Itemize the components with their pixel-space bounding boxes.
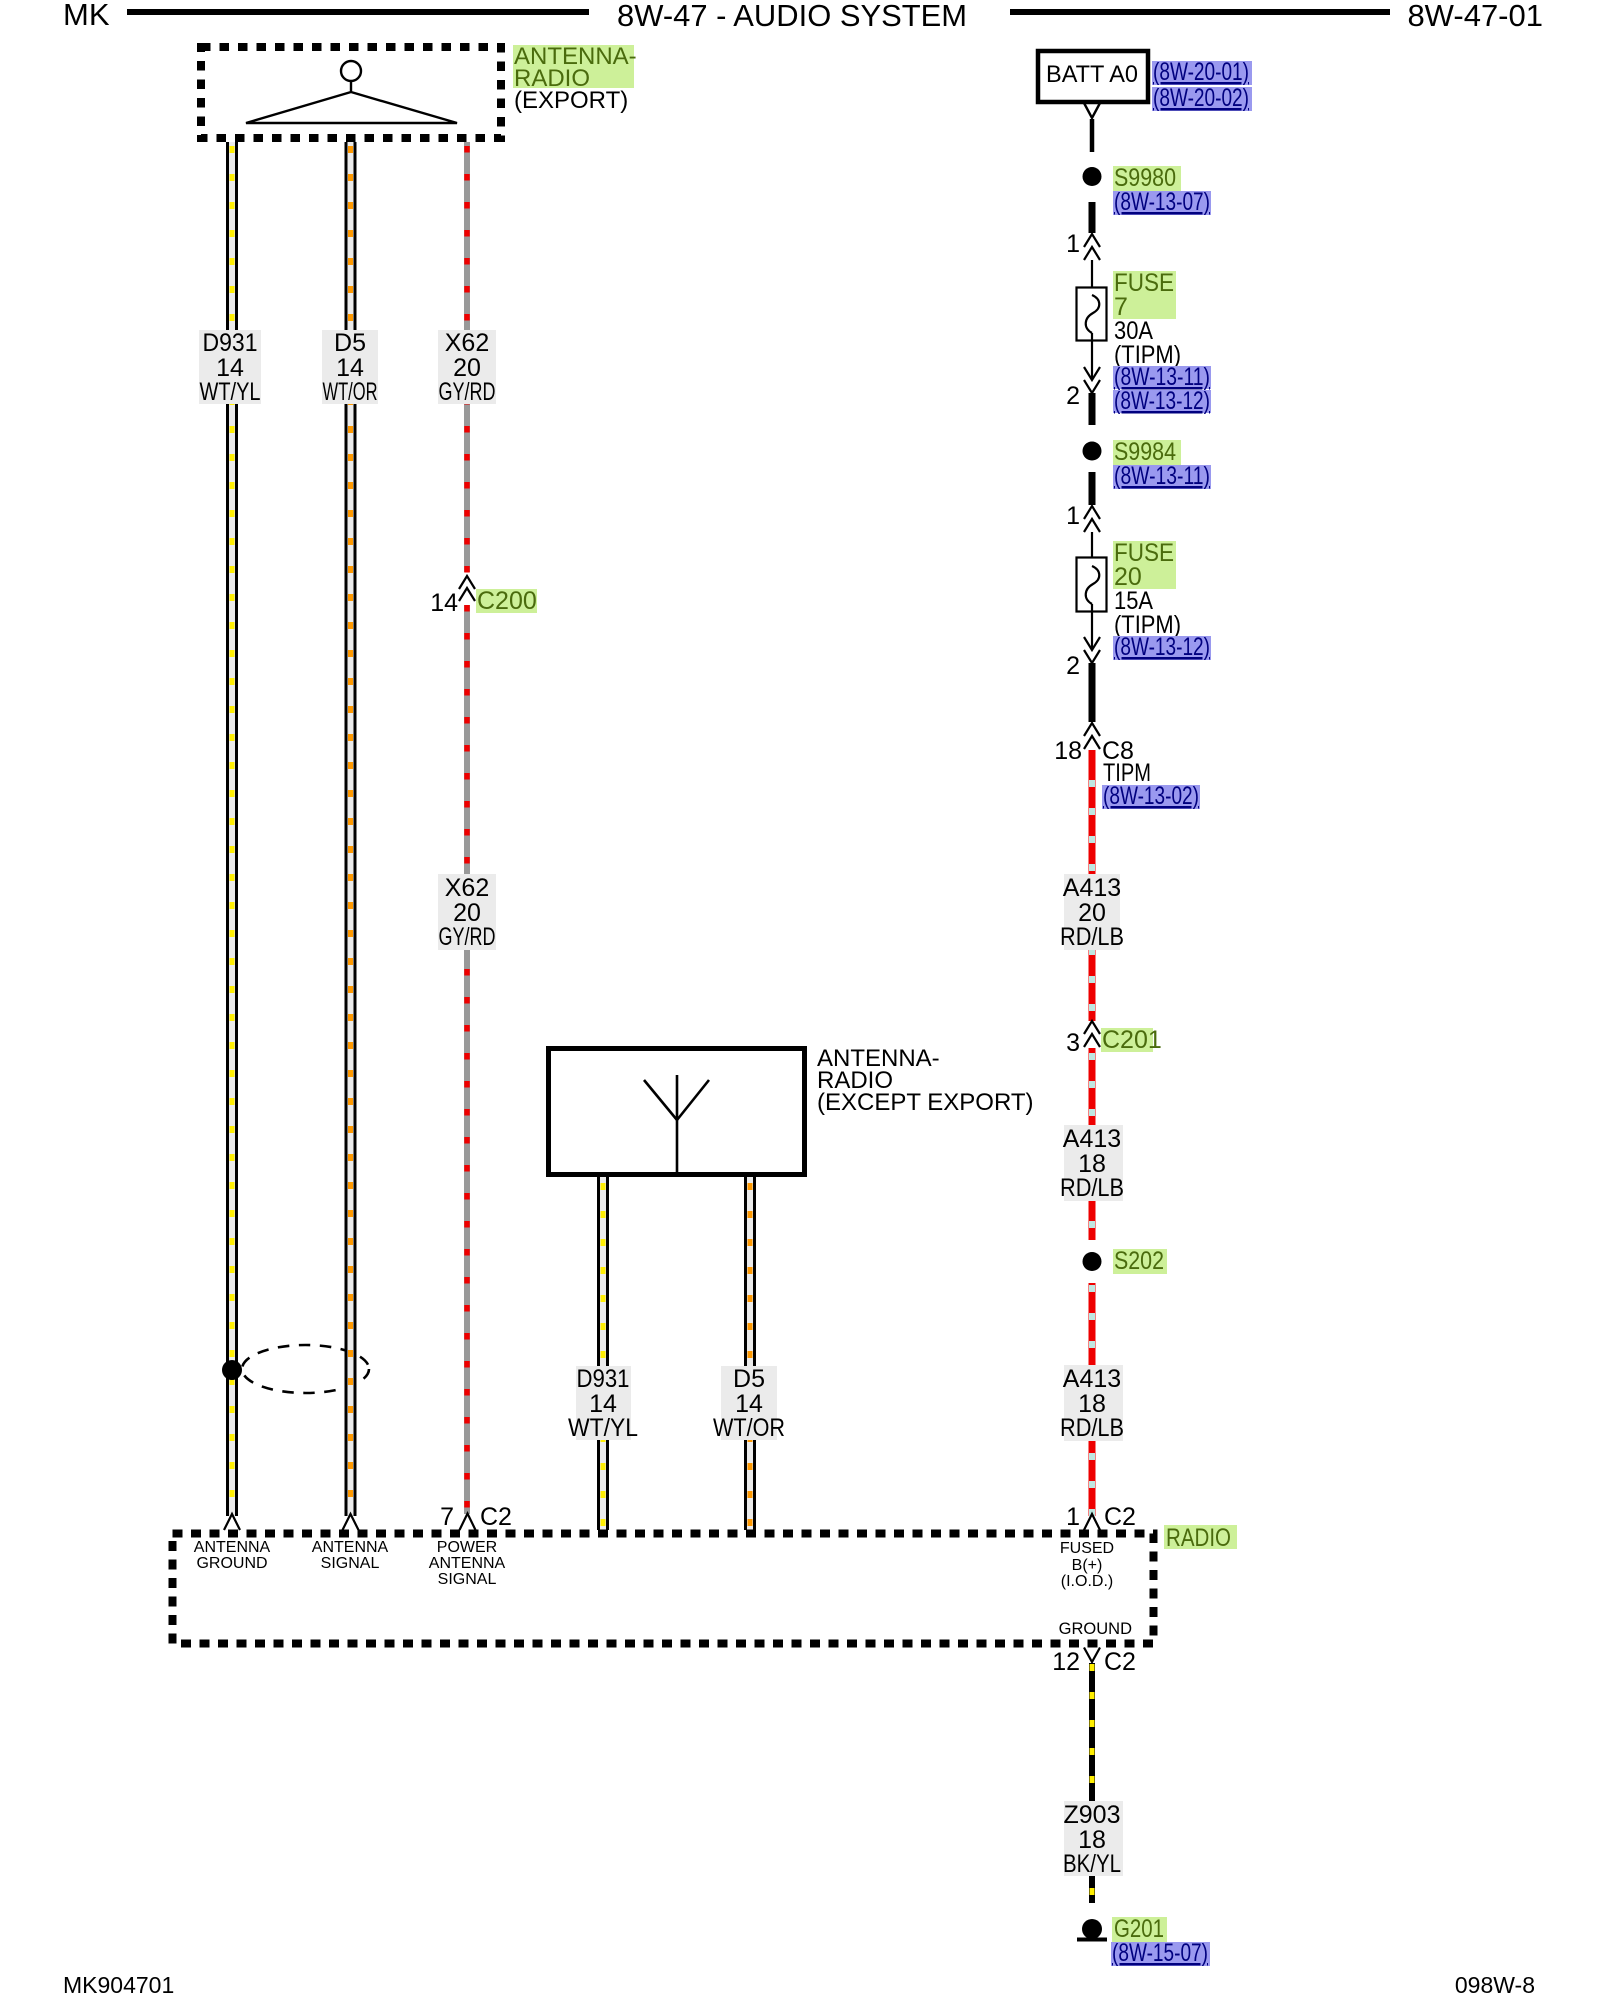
svg-text:WT/YL: WT/YL — [200, 378, 261, 406]
svg-text:RADIO: RADIO — [1166, 1524, 1231, 1552]
battery feed box BATT A0 — [1038, 51, 1148, 102]
splice S202 — [1083, 1252, 1102, 1271]
svg-text:S202: S202 — [1114, 1247, 1164, 1275]
wire D5 WT/OR (antenna signal, export) — [345, 142, 357, 1516]
ground symbol G201 — [1082, 1919, 1102, 1939]
reference (8W-13-11) — [1113, 366, 1211, 389]
svg-text:ANTENNA: ANTENNA — [194, 1539, 271, 1556]
reference (8W-13-12) — [1113, 390, 1211, 413]
label D931 14 WT/YL (row 2) — [568, 1365, 638, 1442]
connector V below battery box — [1084, 103, 1100, 118]
reference (8W-13-12) — [1113, 636, 1211, 660]
svg-text:(8W-13-07): (8W-13-07) — [1114, 188, 1210, 216]
label X62 20 GY/RD (row 1) — [438, 329, 496, 406]
svg-text:1: 1 — [1066, 230, 1080, 258]
svg-text:ANTENNA: ANTENNA — [429, 1555, 506, 1572]
svg-text:MK: MK — [63, 0, 110, 32]
svg-text:12: 12 — [1052, 1648, 1080, 1676]
svg-text:14: 14 — [430, 589, 458, 617]
svg-text:D5: D5 — [733, 1365, 765, 1393]
svg-text:8W-47 - AUDIO SYSTEM: 8W-47 - AUDIO SYSTEM — [617, 0, 967, 33]
reference (8W-13-02) — [1102, 785, 1200, 809]
wire thick segment to TIPM connector — [1089, 663, 1096, 722]
svg-text:8W-47-01: 8W-47-01 — [1407, 0, 1543, 33]
svg-text:(8W-20-02): (8W-20-02) — [1153, 84, 1249, 112]
svg-text:BK/YL: BK/YL — [1063, 1850, 1121, 1878]
label D931 14 WT/YL (row 1) — [199, 329, 261, 406]
antenna trident symbol — [644, 1075, 709, 1175]
svg-text:(EXPORT): (EXPORT) — [514, 87, 628, 114]
fuse FUSE 7 30A (TIPM) — [1077, 288, 1107, 341]
svg-text:098W-8: 098W-8 — [1455, 1972, 1535, 1998]
splice S9984 — [1083, 442, 1102, 461]
header rule left — [127, 9, 589, 15]
svg-text:C2: C2 — [1104, 1648, 1136, 1676]
svg-text:POWER: POWER — [437, 1539, 497, 1556]
svg-text:A413: A413 — [1063, 1365, 1121, 1393]
svg-text:(I.O.D.): (I.O.D.) — [1061, 1573, 1113, 1590]
svg-text:(EXCEPT EXPORT): (EXCEPT EXPORT) — [817, 1089, 1034, 1116]
svg-text:MK904701: MK904701 — [63, 1972, 174, 1998]
SECTION: footer — [63, 1972, 1535, 1998]
twisted-pair loop (dashed ellipse) — [242, 1345, 369, 1393]
radio dashed enclosure — [173, 1534, 1154, 1644]
antenna ANTENNA-RADIO (EXCEPT EXPORT) box — [549, 1049, 805, 1175]
reference (8W-20-02) — [1152, 87, 1252, 111]
svg-text:2: 2 — [1066, 382, 1080, 410]
svg-text:RD/LB: RD/LB — [1060, 1174, 1124, 1202]
SECTION: middle antenna — [549, 1045, 1034, 1530]
svg-text:D931: D931 — [203, 329, 258, 357]
svg-text:RD/LB: RD/LB — [1060, 1414, 1124, 1442]
svg-text:SIGNAL: SIGNAL — [438, 1571, 497, 1588]
svg-text:C2: C2 — [1104, 1503, 1136, 1531]
wire thick segment below fuse 7 — [1089, 393, 1096, 425]
connector C8 pin 18 (double chevron up) — [1084, 723, 1100, 749]
svg-text:X62: X62 — [445, 329, 489, 357]
wire thick segment below S9984 — [1089, 472, 1096, 505]
wire thick segment below S9980 — [1089, 202, 1096, 233]
reference (8W-13-11) — [1113, 465, 1211, 489]
SECTION: left wires — [199, 142, 537, 1516]
label RADIO — [1164, 1525, 1237, 1549]
svg-text:(8W-15-07): (8W-15-07) — [1112, 1939, 1208, 1967]
svg-text:18: 18 — [1054, 737, 1082, 765]
reference (8W-15-07) — [1111, 1942, 1210, 1966]
wire A413 RD/LB segment 1 — [1089, 750, 1096, 1021]
SECTION: radio box — [173, 1503, 1238, 1676]
antenna ANTENNA-RADIO (EXPORT) dashed enclosure — [201, 47, 501, 138]
label A413 20 RD/LB — [1060, 874, 1124, 951]
svg-text:B(+): B(+) — [1072, 1557, 1103, 1574]
wire into fuse 20 — [1091, 532, 1093, 566]
wire X62 GY/RD upper segment — [464, 142, 470, 573]
header rule right — [1010, 9, 1390, 15]
fuse FUSE 20 15A (TIPM) — [1077, 558, 1107, 612]
wire X62 GY/RD lower segment — [464, 605, 470, 1514]
SECTION: right branch — [1038, 51, 1252, 1531]
svg-text:SIGNAL: SIGNAL — [321, 1555, 380, 1572]
reference (8W-20-01) — [1152, 61, 1252, 85]
svg-text:D5: D5 — [334, 329, 366, 357]
svg-text:A413: A413 — [1063, 1125, 1121, 1153]
fuse 7 pin 2 (double chevron down) — [1084, 367, 1100, 393]
connector C200 pin 14 (double chevron) — [459, 576, 475, 601]
svg-text:GROUND: GROUND — [196, 1555, 267, 1572]
svg-text:GY/RD: GY/RD — [439, 923, 496, 951]
splice S9980 — [1083, 167, 1102, 186]
reference (8W-13-07) — [1113, 191, 1211, 215]
svg-text:A413: A413 — [1063, 874, 1121, 902]
label A413 18 RD/LB (below S202) — [1060, 1365, 1124, 1442]
SECTION: export antenna — [201, 43, 637, 138]
wire D5 WT/OR (antenna signal, except export) — [744, 1177, 756, 1530]
label D5 14 WT/OR (row 1) — [322, 329, 378, 406]
wire stub below battery — [1090, 119, 1095, 152]
svg-text:RD/LB: RD/LB — [1060, 923, 1124, 951]
svg-text:FUSED: FUSED — [1060, 1540, 1114, 1557]
svg-text:C200: C200 — [477, 587, 537, 615]
svg-text:WT/OR: WT/OR — [713, 1414, 785, 1442]
svg-text:1: 1 — [1066, 1503, 1080, 1531]
svg-text:C2: C2 — [480, 1503, 512, 1531]
wire out of fuse 7 — [1091, 333, 1093, 380]
svg-text:1: 1 — [1066, 502, 1080, 530]
wire A413 RD/LB segment 3 — [1089, 1283, 1096, 1516]
fuse 20 pin 2 (double chevron down) — [1084, 637, 1100, 663]
wire A413 RD/LB segment 2 — [1089, 1048, 1096, 1240]
svg-text:(8W-13-11): (8W-13-11) — [1114, 462, 1210, 490]
svg-text:2: 2 — [1066, 652, 1080, 680]
SECTION: ground wire — [1063, 1663, 1210, 1967]
wire Z903 BK/YL — [1089, 1663, 1095, 1903]
svg-text:C201: C201 — [1102, 1026, 1162, 1054]
svg-text:WT/YL: WT/YL — [568, 1414, 638, 1442]
svg-text:(8W-20-01): (8W-20-01) — [1153, 58, 1249, 86]
splice dot on antenna ground wire — [222, 1360, 242, 1380]
wire D931 WT/YL (antenna ground, export) — [226, 142, 238, 1516]
label D5 14 WT/OR (row 2) — [713, 1365, 785, 1442]
wire into fuse 7 — [1091, 260, 1093, 295]
radio pin antenna signal (chevron up) — [343, 1514, 359, 1530]
svg-text:7: 7 — [440, 1503, 454, 1531]
label Z903 18 BK/YL — [1063, 1801, 1123, 1878]
label A413 18 RD/LB (above S202) — [1060, 1125, 1124, 1202]
SECTION: header — [63, 0, 1543, 33]
svg-text:GY/RD: GY/RD — [439, 378, 496, 406]
antenna hanger symbol — [246, 61, 457, 123]
label X62 20 GY/RD (row 2) — [438, 874, 496, 951]
svg-text:GROUND: GROUND — [1059, 1620, 1132, 1638]
svg-text:D931: D931 — [577, 1365, 630, 1393]
wire D931 WT/YL (antenna ground, except export) — [597, 1177, 609, 1530]
svg-text:(8W-13-02): (8W-13-02) — [1103, 782, 1199, 810]
svg-text:3: 3 — [1066, 1029, 1080, 1057]
svg-text:(8W-13-12): (8W-13-12) — [1114, 387, 1210, 415]
svg-text:WT/OR: WT/OR — [323, 378, 378, 406]
wire out of fuse 20 — [1091, 604, 1093, 650]
svg-text:ANTENNA: ANTENNA — [312, 1539, 389, 1556]
svg-text:BATT A0: BATT A0 — [1046, 61, 1138, 88]
label ANTENNA-RADIO (EXPORT) — [513, 45, 634, 88]
svg-text:X62: X62 — [445, 874, 489, 902]
radio pin antenna ground (chevron up) — [224, 1514, 240, 1530]
svg-text:Z903: Z903 — [1064, 1801, 1121, 1829]
svg-text:(8W-13-12): (8W-13-12) — [1114, 633, 1210, 661]
